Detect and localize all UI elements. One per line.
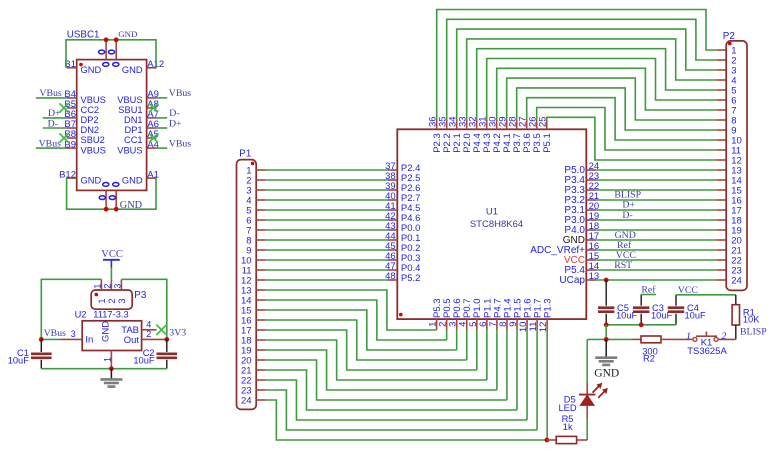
mcu U1 body: [397, 129, 586, 319]
svg-text:24: 24: [731, 275, 742, 286]
USBC1 bottom shield pins: [99, 183, 119, 210]
svg-text:1k: 1k: [563, 422, 573, 432]
no-connect A8: [149, 103, 158, 112]
capacitor C3: [633, 295, 673, 325]
svg-text:D-: D-: [48, 118, 58, 129]
svg-text:VBus: VBus: [169, 88, 192, 99]
svg-text:2: 2: [721, 331, 726, 342]
junction gnd row: [604, 337, 609, 342]
junction USB bottom 2: [114, 207, 119, 212]
svg-text:VBus: VBus: [169, 138, 192, 149]
resistor R5: [547, 414, 587, 443]
svg-text:UCap: UCap: [559, 275, 585, 286]
wire D- B7: [43, 127, 67, 129]
wire VBus A4: [157, 147, 168, 149]
U1 left pins 37-48: [385, 161, 420, 284]
svg-text:SBU1: SBU1: [118, 105, 142, 115]
wires U1 right pins 24-13 to P2 pins 13-24: [596, 170, 716, 280]
svg-text:Ref: Ref: [641, 285, 656, 296]
wire gnd caps rail: [606, 324, 676, 326]
svg-text:DN2: DN2: [81, 125, 100, 135]
wire P3 pin3 to 3V3 rail: [121, 279, 166, 339]
svg-text:In: In: [85, 335, 93, 346]
svg-text:D+: D+: [169, 118, 182, 129]
no-connect B5: [60, 103, 69, 112]
connector USBC1 body: [77, 60, 147, 191]
svg-text:BLISP: BLISP: [740, 327, 767, 338]
USBC1 right pins A12 A9-A4 A1: [117, 59, 164, 185]
USBC1 left pins B1 B4-B9 B12: [59, 59, 106, 185]
svg-text:VBUS: VBUS: [117, 145, 142, 155]
junction C5 gnd: [604, 322, 609, 327]
regulator U2: [60, 320, 167, 369]
wire USB bottom GND net: [67, 178, 156, 209]
capacitor C5: [598, 280, 638, 325]
U1 right pins 24-13: [530, 161, 599, 286]
svg-text:D-: D-: [622, 210, 632, 221]
wire C5 gnd to switch row: [605, 325, 607, 340]
svg-text:USBC1: USBC1: [67, 30, 100, 41]
svg-text:LED: LED: [559, 403, 577, 413]
svg-text:1: 1: [686, 331, 691, 342]
wire VBus B9: [36, 147, 67, 149]
resistor R2: [631, 336, 676, 364]
svg-text:VBUS: VBUS: [81, 95, 106, 105]
wire LED to R5: [586, 419, 588, 440]
svg-text:3: 3: [112, 284, 122, 289]
svg-text:U2: U2: [75, 310, 87, 320]
U1 bottom pins 1-12: [428, 298, 554, 332]
svg-text:VBUS: VBUS: [81, 145, 106, 155]
wire P3 pin1 to VBus rail: [41, 279, 101, 339]
junction C3 gnd: [639, 322, 644, 327]
led D5: [559, 339, 608, 419]
svg-text:P1: P1: [239, 149, 251, 160]
svg-text:CC1: CC1: [124, 135, 143, 145]
no-connect B8: [60, 134, 69, 143]
svg-text:GND: GND: [100, 321, 111, 342]
wire VBus to In: [41, 338, 60, 340]
svg-text:Out: Out: [124, 335, 140, 346]
ground symbol right: [594, 339, 619, 379]
svg-text:B12: B12: [59, 169, 76, 180]
svg-text:P5.1: P5.1: [542, 133, 553, 153]
wire VCC to P3 pin 2: [110, 268, 112, 280]
svg-text:GND: GND: [81, 175, 102, 185]
svg-text:1: 1: [92, 284, 102, 289]
svg-text:DN1: DN1: [124, 115, 143, 125]
wire VBus A9: [157, 97, 168, 99]
svg-text:P5.2: P5.2: [401, 273, 421, 284]
power symbol VCC regulator: [101, 249, 123, 267]
capacitor C1: [8, 339, 52, 368]
svg-text:2: 2: [102, 284, 112, 289]
svg-text:10uF: 10uF: [133, 355, 155, 365]
svg-text:SBU2: SBU2: [81, 135, 105, 145]
junction USB top 1: [104, 37, 109, 42]
svg-text:3V3: 3V3: [169, 328, 186, 339]
svg-text:2: 2: [146, 329, 151, 339]
svg-text:1117-3.3: 1117-3.3: [93, 310, 128, 320]
svg-text:GND: GND: [122, 175, 143, 185]
svg-text:GND: GND: [122, 65, 143, 75]
wire USB top GND net: [66, 40, 156, 68]
switch K1: [676, 331, 735, 357]
capacitor C2: [133, 339, 177, 368]
svg-text:10uF: 10uF: [685, 310, 707, 320]
svg-text:P2: P2: [723, 31, 735, 42]
wire Ref stub: [641, 294, 656, 296]
svg-text:STC8H8K64: STC8H8K64: [470, 219, 523, 230]
junction U2 GND: [109, 366, 114, 371]
svg-text:DP1: DP1: [125, 125, 143, 135]
wire regulator ground rail: [41, 368, 167, 370]
wires P1 pins 13-24 to U1 pins 1-12: [266, 290, 548, 440]
svg-text:CC2: CC2: [81, 105, 100, 115]
junction VBus C1: [39, 337, 44, 342]
svg-text:3: 3: [117, 298, 127, 303]
svg-text:RST: RST: [614, 260, 632, 271]
svg-text:VBUS: VBUS: [117, 95, 142, 105]
USBC1 top shield pins: [99, 40, 119, 67]
no-connect A5: [149, 134, 158, 143]
wire LED to R2 row: [588, 338, 632, 340]
svg-text:A1: A1: [147, 169, 159, 180]
header P2: [716, 41, 747, 291]
svg-text:R2: R2: [643, 354, 655, 364]
svg-text:2: 2: [107, 298, 117, 303]
junction R5 row: [545, 438, 550, 443]
junction 3V3 C2: [164, 337, 169, 342]
svg-text:VBus: VBus: [39, 88, 62, 99]
ground symbol regulator: [100, 369, 122, 387]
svg-text:4: 4: [146, 320, 151, 330]
svg-text:1: 1: [103, 357, 113, 362]
junction USB bottom 1: [104, 207, 109, 212]
svg-text:GND: GND: [118, 29, 137, 39]
wire D- A7: [157, 117, 168, 119]
header P3: [91, 279, 132, 309]
svg-text:3: 3: [71, 329, 76, 339]
svg-text:1: 1: [97, 298, 107, 303]
wires U1 top pins 36-25 to P2 pins 1-12: [437, 10, 717, 161]
svg-text:TS3625A: TS3625A: [687, 346, 727, 357]
svg-text:GND: GND: [594, 367, 619, 379]
svg-text:VBus: VBus: [39, 138, 62, 149]
svg-text:VCC: VCC: [101, 249, 123, 260]
junction USB top 2: [114, 37, 119, 42]
wire VCC C4 to R1: [676, 294, 736, 296]
svg-text:10uF: 10uF: [8, 355, 30, 365]
header P1: [237, 160, 266, 410]
no-connect TAB: [156, 325, 166, 335]
svg-text:10K: 10K: [743, 315, 760, 325]
svg-text:DP2: DP2: [81, 115, 99, 125]
wire D+ B6: [43, 117, 67, 119]
svg-text:24: 24: [241, 395, 252, 406]
svg-text:GND: GND: [120, 200, 143, 211]
svg-text:U1: U1: [486, 206, 498, 217]
svg-text:VBus: VBus: [44, 328, 67, 339]
svg-text:P1.3: P1.3: [543, 298, 554, 318]
junction UCap C5: [604, 278, 609, 283]
wires P1 pins 1-12 to U1 pins 37-48: [266, 170, 388, 280]
U1 top pins 36-25: [428, 116, 553, 152]
svg-text:P3: P3: [134, 290, 147, 301]
wire D+ A6: [157, 127, 168, 129]
resistor R1: [732, 295, 760, 340]
capacitor C4: [668, 295, 706, 325]
svg-text:GND: GND: [81, 65, 102, 75]
wire VBus B4: [36, 97, 67, 99]
